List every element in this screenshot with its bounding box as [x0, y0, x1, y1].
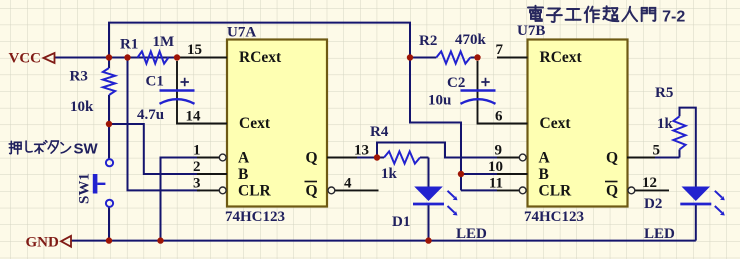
wire Q1 to R4 junction	[357, 157, 377, 159]
svg-text:U7A: U7A	[227, 25, 256, 41]
svg-text:B: B	[539, 166, 549, 183]
resistor R2 470k	[436, 51, 470, 63]
svg-text:10k: 10k	[70, 99, 94, 115]
svg-text:RCext: RCext	[540, 49, 583, 66]
wire R3 bottom to node X	[108, 95, 110, 124]
pin 14 Cext U7A lead from C1	[177, 61, 227, 124]
svg-text:Q: Q	[306, 150, 318, 167]
pin 15 RCext U7A	[178, 57, 227, 59]
svg-text:Q: Q	[306, 183, 318, 200]
pin 3 CLR U7A	[197, 189, 219, 191]
junction dot (428.5,240.6)	[425, 237, 431, 243]
wire Q2 to R5	[655, 150, 680, 158]
svg-text:1k: 1k	[657, 116, 674, 132]
svg-text:6: 6	[495, 109, 503, 125]
svg-text:CLR: CLR	[238, 183, 272, 200]
op IC body U7A 74HC123	[227, 40, 327, 207]
svg-text:LED: LED	[644, 226, 675, 242]
wire R1 leads	[128, 57, 179, 59]
LED D1 emission arrows	[448, 191, 455, 198]
svg-text:LED: LED	[456, 226, 487, 242]
svg-text:C2: C2	[447, 75, 465, 91]
svg-text:Q: Q	[606, 150, 618, 167]
LED D2 emission arrows	[715, 191, 722, 198]
svg-text:12: 12	[642, 175, 657, 191]
wire switch top	[108, 124, 110, 159]
svg-text:SW1: SW1	[77, 173, 93, 204]
svg-text:3: 3	[193, 176, 201, 192]
pin 13 Q U7A	[327, 157, 357, 159]
LED diode D1	[414, 187, 443, 202]
capacitor C1 plus sign	[181, 78, 189, 86]
junction dot (127.5,57.5)	[124, 54, 130, 60]
capacitor C2 plus sign	[481, 78, 489, 86]
junction dot (410,57.5)	[407, 54, 413, 60]
switch SW1 actuator bar	[93, 174, 98, 194]
svg-text:4.7u: 4.7u	[137, 107, 164, 123]
pin 11 CLR U7B	[497, 189, 519, 191]
resistor R4 1k	[384, 151, 420, 163]
wire D1 to GND	[428, 203, 430, 241]
bubble pin 3	[219, 187, 226, 194]
junction dot (477.5,57.5)	[474, 54, 480, 60]
svg-text:74HC123: 74HC123	[225, 209, 285, 225]
svg-text:SW: SW	[74, 141, 99, 158]
svg-text:A: A	[238, 150, 250, 167]
pin 5 Q U7B	[627, 157, 655, 159]
svg-text:Cext: Cext	[540, 115, 572, 132]
svg-text:R1: R1	[120, 37, 138, 53]
resistor R1 1M	[138, 51, 169, 63]
wire VCC to CLR U7A	[128, 58, 201, 191]
label 押しボタンSW (drawn strokes)	[9, 141, 21, 154]
svg-text:9: 9	[495, 143, 503, 159]
pin 2 B U7A	[197, 173, 227, 175]
svg-text:15: 15	[187, 42, 202, 58]
bubble pin 1	[219, 154, 226, 161]
svg-text:D2: D2	[644, 196, 662, 212]
switch SW1 contact circles	[106, 159, 113, 166]
svg-text:4: 4	[344, 176, 352, 192]
junction dot (109,124)	[106, 121, 112, 127]
junction dot (160.5,240.6)	[157, 237, 163, 243]
svg-text:1k: 1k	[381, 166, 398, 182]
LED diode D2	[682, 187, 711, 202]
pin 4 Qbar U7A	[335, 189, 379, 191]
wire R2 leads	[410, 57, 478, 59]
wire GND rail	[71, 240, 696, 242]
capacitor C1 4.7u plates	[160, 89, 195, 92]
wire R3 top lead	[108, 58, 110, 69]
svg-text:7: 7	[496, 42, 504, 58]
svg-text:Q: Q	[606, 183, 618, 200]
bubble pin 4	[328, 187, 335, 194]
svg-text:1: 1	[193, 143, 201, 159]
wire A input U7A to GND	[161, 158, 198, 241]
svg-text:VCC: VCC	[9, 51, 42, 67]
capacitor C2 10u plates	[461, 89, 496, 92]
wire to pin 10	[461, 173, 497, 175]
junction dot (461,174)	[458, 171, 464, 177]
svg-text:470k: 470k	[455, 32, 487, 48]
wire switch bottom	[108, 207, 110, 241]
svg-text:R2: R2	[419, 33, 437, 49]
svg-text:GND: GND	[26, 235, 60, 251]
svg-text:7-2: 7-2	[662, 9, 685, 26]
svg-text:11: 11	[489, 176, 503, 192]
svg-text:74HC123: 74HC123	[524, 209, 584, 225]
svg-text:C1: C1	[146, 74, 164, 90]
bubble pin 11	[519, 187, 526, 194]
wire D2 to GND	[695, 203, 697, 241]
bubble pin 12	[628, 187, 635, 194]
wire R4 leads	[377, 157, 429, 159]
svg-text:RCext: RCext	[239, 49, 282, 66]
svg-text:10u: 10u	[428, 93, 451, 109]
pin 1 A U7A	[197, 157, 219, 159]
wire R5 top loop to D2	[680, 108, 696, 187]
wire VCC rail	[55, 57, 198, 59]
svg-text:13: 13	[354, 143, 369, 159]
svg-text:1M: 1M	[153, 34, 175, 50]
svg-text:10: 10	[488, 159, 503, 175]
junction dot (377,157.5)	[374, 154, 380, 160]
resistor R3 10k	[103, 68, 115, 95]
wire to pin 11	[461, 189, 497, 191]
junction dot (109,57.5)	[106, 54, 112, 60]
svg-text:R5: R5	[655, 85, 673, 101]
pin 6 Cext U7B lead from C2	[478, 61, 528, 124]
svg-text:R4: R4	[370, 124, 389, 140]
svg-text:A: A	[539, 150, 551, 167]
wire R4 to D1	[428, 158, 430, 187]
svg-text:Cext: Cext	[239, 115, 271, 132]
junction dot (109,240.6)	[106, 237, 112, 243]
svg-text:B: B	[238, 166, 248, 183]
svg-text:U7B: U7B	[517, 23, 545, 39]
pin 7 RCext U7B	[497, 57, 528, 59]
bubble pin 9	[519, 154, 526, 161]
wire Q1 to A input U7B	[377, 143, 497, 158]
svg-text:14: 14	[186, 109, 202, 125]
svg-text:D1: D1	[392, 214, 410, 230]
junction dot (177,57.5)	[174, 54, 180, 60]
resistor R5 1k	[673, 116, 685, 149]
svg-text:5: 5	[653, 143, 661, 159]
wire top loop VCC to R2	[109, 23, 410, 58]
pin 10 B U7B	[497, 173, 528, 175]
wire node X to B input U7A	[109, 124, 197, 174]
wire VCC branch to B CLR U7B	[410, 58, 461, 191]
svg-text:2: 2	[193, 159, 201, 175]
svg-text:CLR: CLR	[539, 183, 573, 200]
op IC body U7B 74HC123	[528, 40, 628, 207]
title text 電子工作超入門 7-2 (drawn strokes)	[528, 6, 543, 21]
svg-text:R3: R3	[70, 69, 88, 85]
pin 9 A U7B	[497, 157, 519, 159]
pin 12 Qbar U7B	[635, 189, 669, 191]
